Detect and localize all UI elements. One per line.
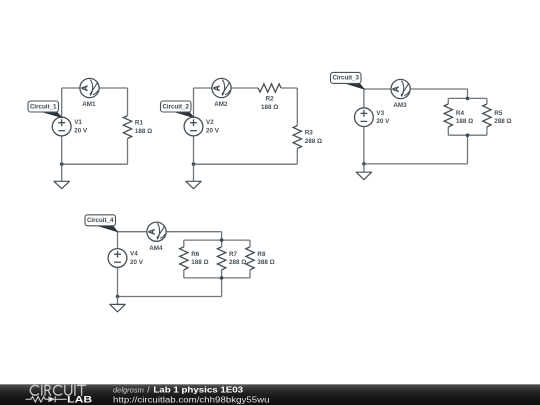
wire: bottom rail: [62, 163, 128, 165]
svg-text:20 V: 20 V: [74, 127, 88, 134]
svg-text:V1: V1: [74, 119, 82, 126]
wire: V3 bottom stub: [363, 127, 365, 164]
wire: parallel bottom bus: [448, 134, 487, 136]
wire: top rail to AM3: [364, 88, 391, 90]
svg-text:20 V: 20 V: [206, 127, 220, 134]
voltage source V3 20 V: [355, 108, 391, 127]
wire: R4 branch bottom: [447, 127, 449, 135]
wire: R8 branch top: [249, 240, 251, 247]
svg-text:188 Ω: 188 Ω: [135, 128, 152, 135]
wire: right rail from R1 down to bottom rail: [127, 139, 129, 165]
wire: R4 branch top: [447, 98, 449, 104]
svg-text:188 Ω: 188 Ω: [456, 118, 473, 125]
callout label Circuit_3: [331, 72, 364, 89]
svg-text:R1: R1: [135, 120, 144, 127]
wire: R2 to right corner: [281, 87, 297, 89]
wire: top rail to AM4: [118, 231, 148, 233]
wire: drop from bottom bus to bottom rail circuit 4: [221, 278, 223, 297]
wire: bottom rail circuit 2: [194, 163, 298, 165]
wire: V4 top stub up to top rail: [117, 232, 119, 249]
svg-text:388 Ω: 388 Ω: [257, 259, 274, 266]
wire: top rail right segment from AM1 to right corner: [99, 87, 128, 89]
resistor R2 188 Ohm (horizontal): [258, 84, 281, 111]
svg-text:288 Ω: 288 Ω: [305, 138, 322, 145]
callout label Circuit_2: [161, 101, 194, 117]
svg-text:R4: R4: [456, 110, 465, 117]
wire: V2 top stub up to top rail: [193, 88, 195, 117]
wire: AM3 to right corner: [410, 88, 467, 90]
ground circuit 3: [356, 164, 371, 180]
CircuitLab logo wordmark CIRCUIT (line-font letters): [30, 385, 85, 395]
resistor R3 288 Ohm: [293, 126, 322, 149]
ground circuit 1: [54, 164, 69, 189]
wire: V1 bottom stub: [61, 136, 63, 164]
svg-text:V3: V3: [376, 110, 384, 117]
ground circuit 2: [186, 164, 201, 189]
svg-text:Lab 1 physics 1E03: Lab 1 physics 1E03: [153, 385, 243, 394]
resistor R6 188 Ohm: [180, 247, 209, 270]
callout label Circuit_1: [28, 101, 62, 117]
wire: V4 bottom stub: [117, 267, 119, 296]
wire: R8 branch bottom: [249, 270, 251, 278]
wire: V2 bottom stub: [193, 136, 195, 164]
wire: right rail down to R1: [127, 88, 129, 116]
wire: R6 branch top: [183, 240, 185, 247]
wire: top rail to AM2: [194, 87, 213, 89]
svg-text:R5: R5: [494, 110, 503, 117]
svg-text:Circuit_1: Circuit_1: [30, 103, 57, 110]
wire: bottom rail circuit 4: [118, 296, 222, 298]
wire: AM2 to R2: [231, 87, 258, 89]
svg-text:AM4: AM4: [149, 245, 163, 252]
svg-text:188 Ω: 188 Ω: [261, 104, 278, 111]
wire: AM4 to drop corner: [166, 231, 222, 233]
wire: drop from bottom bus to bottom rail: [467, 135, 469, 164]
ammeter AM3: [391, 79, 410, 109]
svg-text:LAB: LAB: [67, 395, 92, 405]
resistor R8 388 Ohm: [246, 247, 275, 270]
callout label Circuit_4: [85, 215, 118, 232]
wire: V3 top stub up to top rail: [363, 89, 365, 108]
junction node parallel bottom bus: [466, 133, 470, 137]
svg-text:AM1: AM1: [82, 101, 96, 108]
voltage source V1 20 V: [52, 117, 88, 136]
svg-text:V2: V2: [206, 119, 214, 126]
junction node parallel top bus circuit 4: [220, 238, 224, 242]
junction node circuit 4 bottom: [116, 295, 120, 299]
svg-text:delgrosm: delgrosm: [113, 385, 144, 394]
wire: bottom rail circuit 3: [364, 163, 468, 165]
svg-text:Circuit_4: Circuit_4: [87, 217, 114, 224]
wire: parallel top bus: [448, 97, 487, 99]
svg-text:R3: R3: [305, 130, 314, 137]
svg-text:R7: R7: [229, 251, 238, 258]
svg-text:http://circuitlab.com/chh98bkg: http://circuitlab.com/chh98bkgy55wu: [113, 395, 270, 404]
svg-text:Circuit_3: Circuit_3: [332, 75, 359, 82]
wire: drop to parallel top bus: [467, 89, 469, 98]
svg-text:V4: V4: [130, 251, 138, 258]
wire: parallel top bus circuit 4: [184, 239, 250, 241]
voltage source V2 20 V: [184, 117, 220, 136]
voltage source V4 20 V: [108, 249, 144, 268]
svg-text:20 V: 20 V: [376, 118, 390, 125]
ammeter AM2: [212, 78, 231, 108]
resistor R4 188 Ohm: [444, 104, 473, 127]
svg-text:AM2: AM2: [214, 101, 228, 108]
ground circuit 4: [110, 297, 125, 312]
svg-text:R6: R6: [191, 251, 200, 258]
ammeter AM4: [147, 222, 166, 252]
wire: R6 branch bottom: [183, 270, 185, 278]
junction node circuit 2 bottom: [192, 162, 196, 166]
wire: R7 branch bottom: [221, 270, 223, 278]
svg-text:AM3: AM3: [393, 102, 407, 109]
wire: V1 top stub up to top rail: [61, 88, 63, 117]
wire: drop to parallel top bus circuit 4: [221, 232, 223, 240]
svg-text:Circuit_2: Circuit_2: [162, 103, 189, 110]
wire: R3 to bottom rail: [296, 149, 298, 165]
svg-text:288 Ω: 288 Ω: [229, 259, 246, 266]
resistor R5 288 Ohm: [483, 104, 512, 127]
svg-text:188 Ω: 188 Ω: [191, 259, 208, 266]
svg-text:20 V: 20 V: [130, 259, 144, 266]
svg-text:288 Ω: 288 Ω: [494, 118, 511, 125]
junction node parallel bottom bus circuit 4: [220, 276, 224, 280]
wire: right rail down to R3: [296, 88, 298, 126]
wire: top rail left segment to AM1: [62, 87, 80, 89]
ammeter AM1: [80, 78, 99, 108]
junction node parallel top bus: [466, 97, 470, 101]
wire: parallel bottom bus circuit 4: [184, 277, 250, 279]
junction node circuit 3 bottom: [362, 162, 366, 166]
resistor R1 188 Ohm: [123, 116, 152, 139]
svg-text:R8: R8: [257, 251, 266, 258]
resistor R7 288 Ohm: [217, 247, 246, 270]
CircuitLab logo schematic squiggle (wire, resistor, diode): [26, 396, 67, 402]
wire: R7 branch top: [221, 240, 223, 247]
svg-text:R2: R2: [266, 96, 275, 103]
junction node circuit 1 bottom: [60, 162, 64, 166]
wire: R5 branch bottom: [486, 127, 488, 135]
wire: R5 branch top: [486, 98, 488, 104]
